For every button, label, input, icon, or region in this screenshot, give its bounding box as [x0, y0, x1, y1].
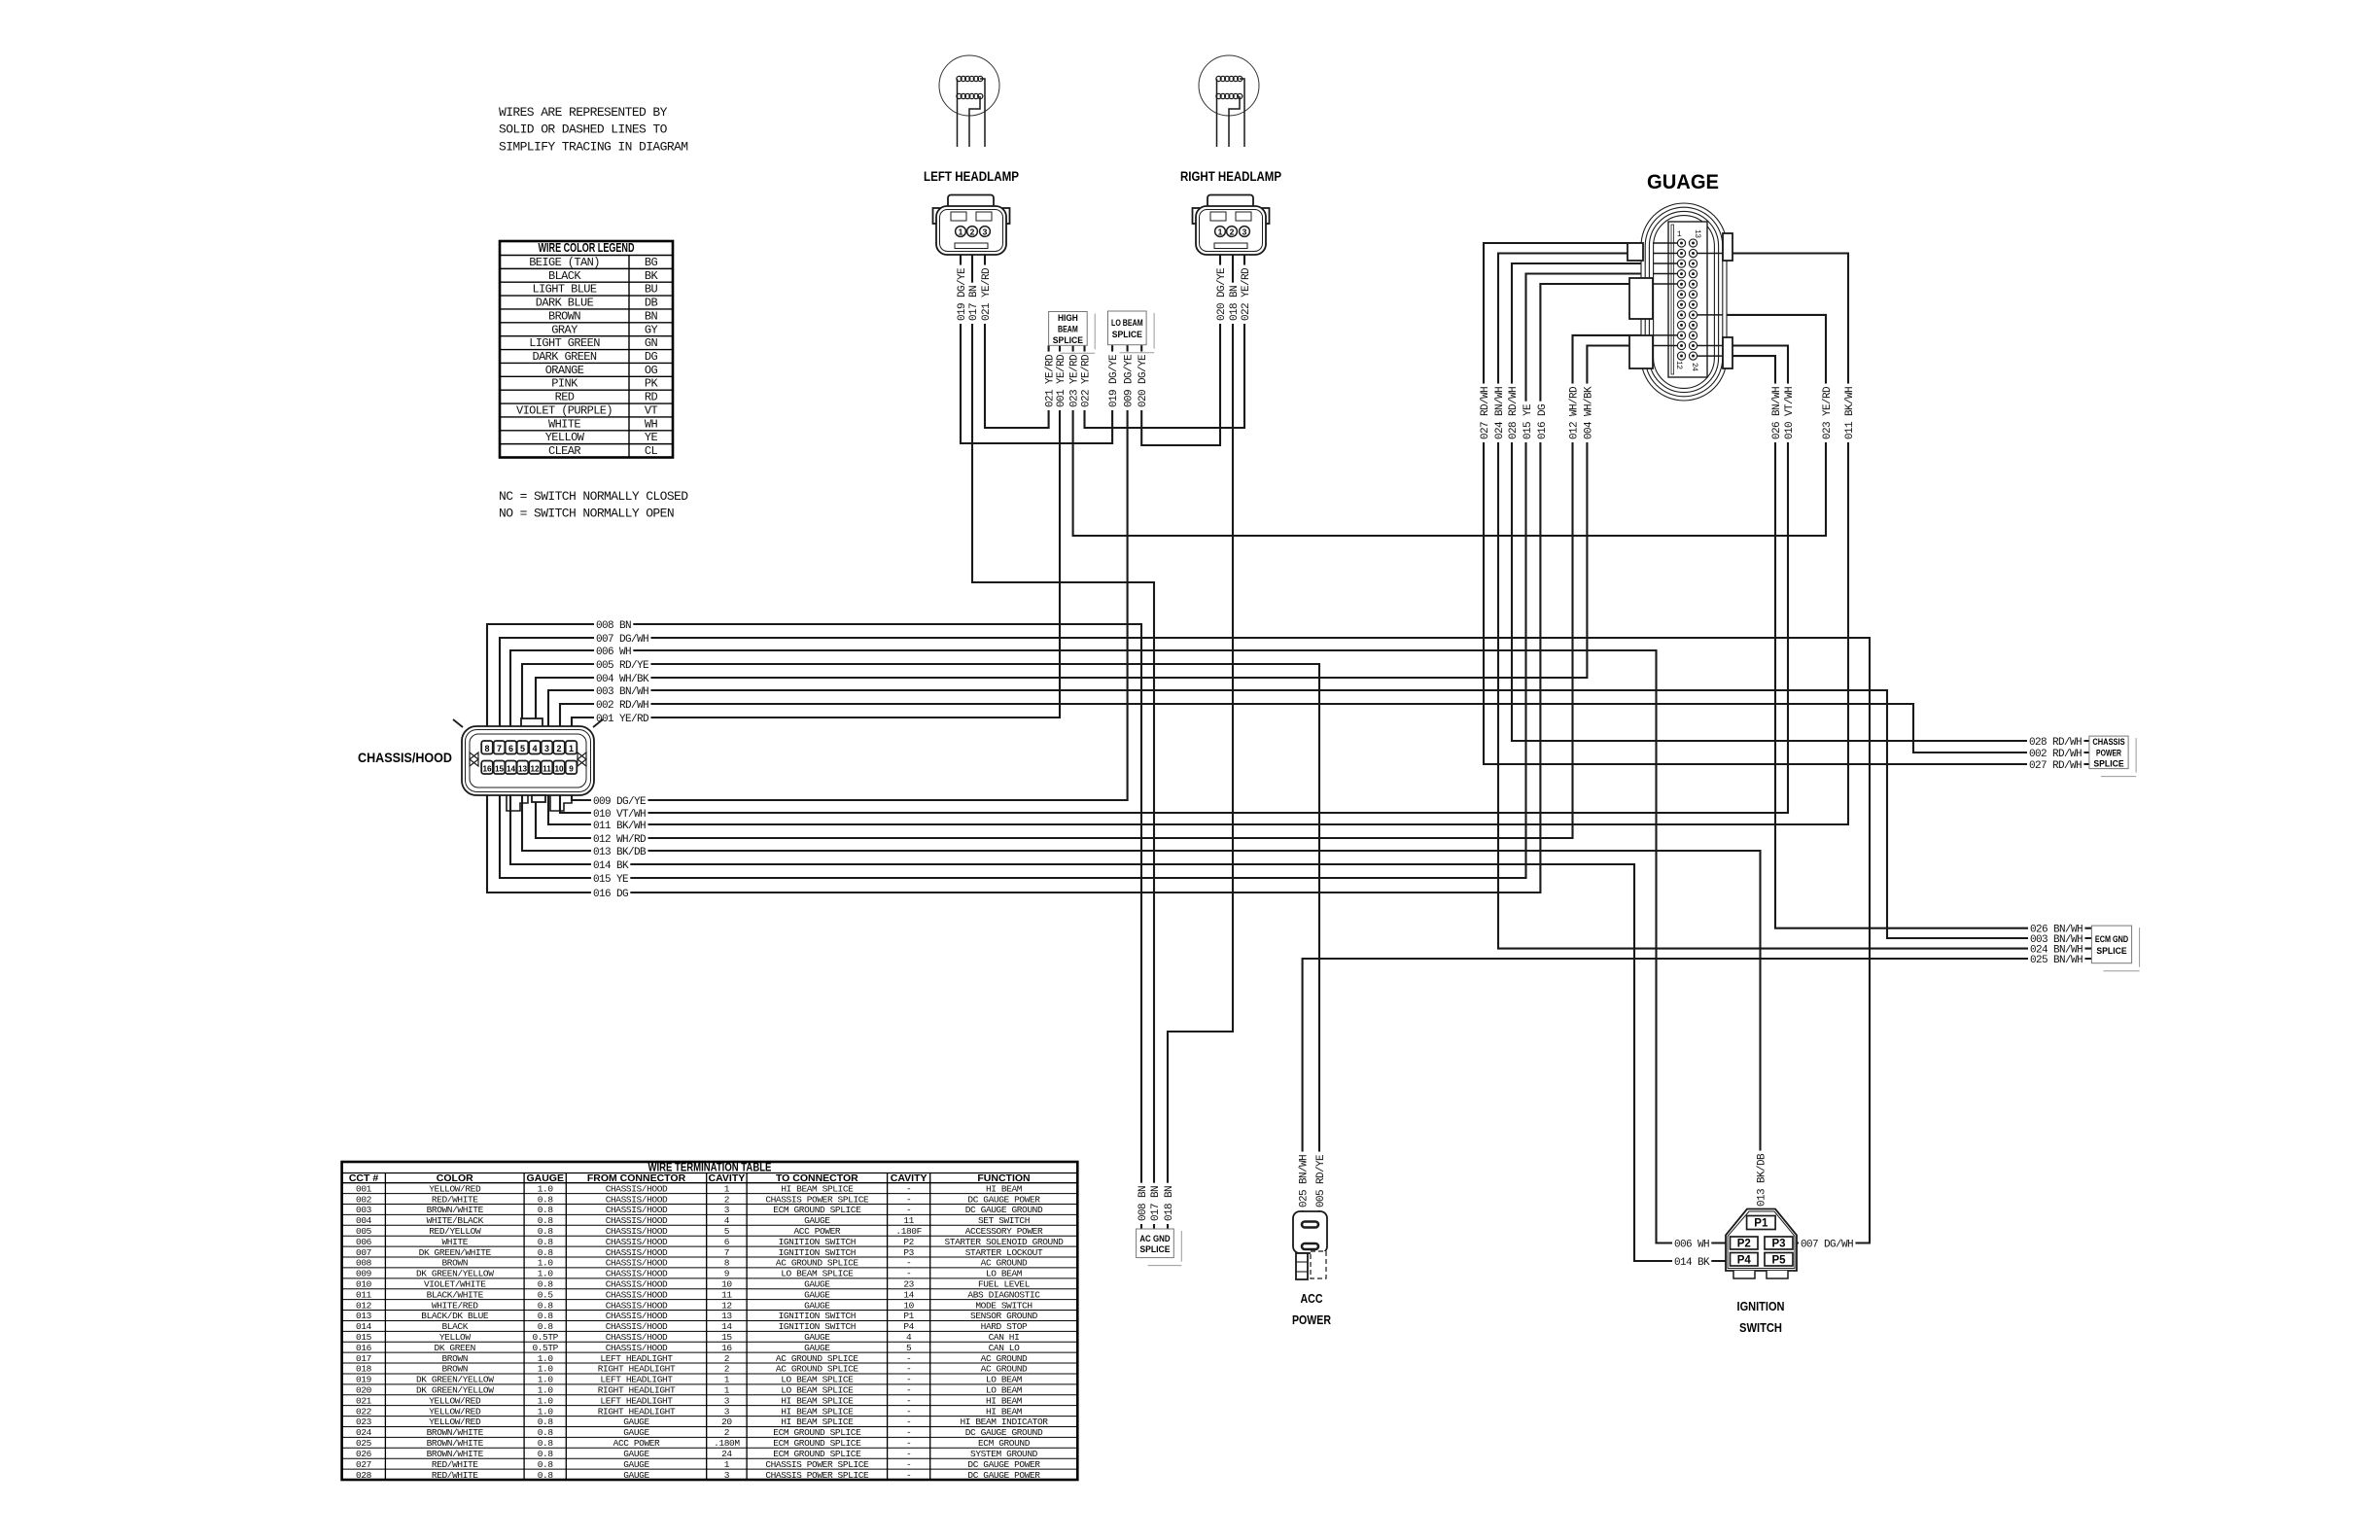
svg-text:SPLICE: SPLICE — [2096, 946, 2126, 957]
svg-text:23: 23 — [903, 1278, 914, 1289]
svg-text:GRAY: GRAY — [551, 323, 577, 336]
svg-text:0.8: 0.8 — [538, 1194, 554, 1205]
ignition pin P4 — [1731, 1253, 1759, 1267]
svg-text:12: 12 — [721, 1300, 732, 1311]
svg-text:-: - — [906, 1470, 911, 1481]
svg-text:ACC POWER: ACC POWER — [793, 1226, 840, 1237]
gauge pins — [1677, 239, 1685, 247]
svg-text:DK GREEN/YELLOW: DK GREEN/YELLOW — [416, 1269, 494, 1279]
svg-text:028: 028 — [356, 1470, 372, 1481]
svg-text:CHASSIS/HOOD: CHASSIS/HOOD — [606, 1258, 668, 1269]
svg-text:003: 003 — [356, 1205, 372, 1215]
svg-text:-: - — [906, 1459, 911, 1470]
svg-text:ACC POWER: ACC POWER — [613, 1438, 660, 1449]
svg-text:CHASSIS/HOOD: CHASSIS/HOOD — [606, 1343, 668, 1353]
label 003 BN/WH — [594, 684, 650, 696]
svg-text:GAUGE: GAUGE — [804, 1215, 830, 1226]
wire 011 BK/WH — [548, 254, 1848, 825]
svg-text:HI BEAM: HI BEAM — [986, 1395, 1023, 1406]
svg-text:0.8: 0.8 — [538, 1226, 554, 1237]
svg-text:LO BEAM SPLICE: LO BEAM SPLICE — [781, 1385, 854, 1396]
svg-text:STARTER LOCKOUT: STARTER LOCKOUT — [965, 1247, 1043, 1258]
svg-text:CHASSIS/HOOD: CHASSIS/HOOD — [606, 1289, 668, 1300]
svg-text:4: 4 — [532, 744, 537, 753]
svg-text:0.8: 0.8 — [538, 1205, 554, 1215]
svg-text:9: 9 — [724, 1269, 730, 1279]
svg-text:MODE SWITCH: MODE SWITCH — [975, 1300, 1032, 1311]
svg-text:0.5: 0.5 — [538, 1289, 554, 1300]
svg-text:LEFT HEADLIGHT: LEFT HEADLIGHT — [600, 1353, 673, 1364]
label 024 BN/WH — [2028, 943, 2084, 955]
svg-text:0.8: 0.8 — [538, 1449, 554, 1459]
svg-text:POWER: POWER — [1292, 1312, 1331, 1327]
svg-text:AC GROUND SPLICE: AC GROUND SPLICE — [776, 1353, 859, 1364]
svg-text:YELLOW/RED: YELLOW/RED — [429, 1395, 481, 1406]
svg-text:RED/WHITE: RED/WHITE — [432, 1470, 478, 1481]
ecm gnd splice — [2139, 927, 2141, 967]
ignition pin P5 — [1765, 1253, 1793, 1267]
label 021 YE/RD s — [1043, 352, 1055, 410]
wire 001 YE/RD — [572, 345, 1060, 736]
svg-text:008 BN: 008 BN — [1137, 1186, 1149, 1221]
svg-text:P3: P3 — [903, 1247, 914, 1258]
svg-text:YELLOW: YELLOW — [439, 1332, 472, 1343]
wire 018 BN — [1168, 255, 1233, 1229]
svg-text:WHITE/BLACK: WHITE/BLACK — [427, 1215, 484, 1226]
svg-text:LEFT HEADLIGHT: LEFT HEADLIGHT — [600, 1395, 673, 1406]
svg-text:-: - — [906, 1375, 911, 1385]
svg-text:019: 019 — [356, 1375, 372, 1385]
svg-text:013: 013 — [356, 1311, 372, 1321]
svg-text:1: 1 — [724, 1459, 730, 1470]
svg-text:GAUGE: GAUGE — [623, 1427, 649, 1438]
svg-text:DC GAUGE GROUND: DC GAUGE GROUND — [965, 1427, 1043, 1438]
svg-text:5: 5 — [724, 1226, 730, 1237]
svg-text:CLEAR: CLEAR — [548, 444, 580, 458]
svg-text:CHASSIS/HOOD: CHASSIS/HOOD — [606, 1215, 668, 1226]
svg-text:0.5TP: 0.5TP — [532, 1332, 558, 1343]
svg-text:025: 025 — [356, 1438, 372, 1449]
svg-text:P2: P2 — [1737, 1239, 1751, 1250]
svg-text:015: 015 — [356, 1332, 372, 1343]
svg-text:017 BN: 017 BN — [968, 286, 980, 321]
svg-text:010: 010 — [356, 1278, 372, 1289]
svg-text:021 YE/RD: 021 YE/RD — [981, 267, 993, 321]
svg-text:0.8: 0.8 — [538, 1300, 554, 1311]
svg-text:4: 4 — [724, 1215, 730, 1226]
svg-text:9: 9 — [569, 764, 574, 773]
svg-text:0.8: 0.8 — [538, 1311, 554, 1321]
svg-text:-: - — [906, 1258, 911, 1269]
svg-text:VT: VT — [645, 403, 658, 417]
wire 013 BK/DB — [522, 759, 1761, 1216]
svg-text:015 YE: 015 YE — [1522, 403, 1534, 439]
label 012 WH/RD v — [1567, 384, 1579, 442]
label 011 BK/WH v — [1842, 384, 1854, 442]
svg-text:GAUGE: GAUGE — [623, 1470, 649, 1481]
label 019 DG/YE v — [955, 265, 966, 324]
svg-text:0.8: 0.8 — [538, 1459, 554, 1470]
svg-text:CHASSIS/HOOD: CHASSIS/HOOD — [606, 1226, 668, 1237]
label 005 RD/YE — [594, 658, 650, 670]
svg-text:GAUGE: GAUGE — [804, 1289, 830, 1300]
svg-text:1: 1 — [724, 1183, 730, 1194]
svg-text:DB: DB — [645, 297, 658, 310]
label 011 BK/WH — [591, 819, 647, 830]
svg-text:024: 024 — [356, 1427, 372, 1438]
svg-text:008 BN: 008 BN — [596, 620, 631, 632]
svg-text:2: 2 — [724, 1194, 730, 1205]
wire 023 YE/RD — [1073, 315, 1826, 536]
label 015 YE v — [1521, 402, 1532, 442]
label 025 BN/WH — [2028, 953, 2084, 964]
svg-text:CHASSIS/HOOD: CHASSIS/HOOD — [606, 1321, 668, 1332]
svg-text:2: 2 — [724, 1427, 730, 1438]
svg-text:028 RD/WH: 028 RD/WH — [1508, 387, 1520, 439]
wire 004 WH/BK — [536, 346, 1674, 737]
wire 028 RD/WH — [1512, 263, 2089, 741]
svg-text:BROWN/WHITE: BROWN/WHITE — [427, 1449, 484, 1459]
svg-text:CAN LO: CAN LO — [989, 1343, 1021, 1353]
svg-text:022: 022 — [356, 1406, 372, 1417]
svg-text:3: 3 — [724, 1406, 730, 1417]
label 016 DG v — [1535, 402, 1547, 442]
label 014 BK — [591, 858, 630, 870]
svg-text:VIOLET/WHITE: VIOLET/WHITE — [424, 1278, 486, 1289]
svg-text:CL: CL — [645, 444, 658, 458]
ac gnd splice — [1180, 1231, 1182, 1262]
svg-text:GAUGE: GAUGE — [804, 1300, 830, 1311]
label 027 RD/WH — [2027, 758, 2083, 770]
svg-text:P3: P3 — [1771, 1239, 1785, 1250]
label 019 DG/YE s — [1106, 352, 1118, 410]
svg-text:BLACK/WHITE: BLACK/WHITE — [427, 1289, 484, 1300]
svg-text:1: 1 — [724, 1375, 730, 1385]
svg-text:P2: P2 — [903, 1237, 914, 1247]
svg-text:10: 10 — [721, 1278, 732, 1289]
ignition pin P1 — [1747, 1216, 1776, 1230]
wire 024 BN/WH — [1498, 254, 2091, 949]
label 003 BN/WH r — [2028, 932, 2084, 944]
svg-text:-: - — [906, 1417, 911, 1427]
svg-text:WH: WH — [645, 417, 658, 431]
svg-text:WHITE/RED: WHITE/RED — [432, 1300, 478, 1311]
svg-text:002 RD/WH: 002 RD/WH — [596, 700, 648, 712]
svg-text:009: 009 — [356, 1269, 372, 1279]
svg-text:RIGHT HEADLAMP: RIGHT HEADLAMP — [1180, 169, 1281, 184]
svg-text:LO BEAM: LO BEAM — [1111, 318, 1143, 329]
label 026 BN/WH v — [1769, 384, 1781, 442]
wire 025 BN/WH — [1303, 959, 2092, 1211]
high beam splice — [1094, 314, 1096, 350]
wire color legend table — [500, 241, 673, 458]
wire 005 RD/YE — [522, 664, 1319, 1211]
svg-text:GAUGE: GAUGE — [623, 1449, 649, 1459]
svg-text:007: 007 — [356, 1247, 371, 1258]
svg-text:BROWN/WHITE: BROWN/WHITE — [427, 1205, 484, 1215]
label 028 RD/WH v — [1506, 384, 1518, 442]
svg-text:-: - — [906, 1427, 911, 1438]
svg-text:0.8: 0.8 — [538, 1247, 554, 1258]
svg-text:GAUGE: GAUGE — [804, 1278, 830, 1289]
svg-text:3: 3 — [724, 1395, 730, 1406]
svg-text:BLACK/DK BLUE: BLACK/DK BLUE — [421, 1311, 489, 1321]
svg-text:BN: BN — [645, 309, 658, 323]
svg-text:1.0: 1.0 — [538, 1353, 554, 1364]
svg-text:13: 13 — [721, 1311, 732, 1321]
svg-text:ECM GND: ECM GND — [2095, 934, 2128, 945]
svg-text:005 RD/YE: 005 RD/YE — [596, 660, 649, 672]
svg-text:DARK GREEN: DARK GREEN — [532, 350, 596, 364]
svg-text:YELLOW: YELLOW — [545, 431, 585, 444]
label 017 BN v — [1148, 1183, 1160, 1224]
svg-text:-: - — [906, 1269, 911, 1279]
wire 020 DG/YE — [1141, 255, 1220, 445]
svg-text:3: 3 — [983, 227, 988, 236]
svg-text:RED: RED — [555, 391, 575, 404]
svg-text:0.8: 0.8 — [538, 1215, 554, 1226]
svg-text:CHASSIS/HOOD: CHASSIS/HOOD — [606, 1237, 668, 1247]
wire 010 VT/WH — [560, 346, 1788, 814]
svg-text:1.0: 1.0 — [538, 1385, 554, 1396]
svg-text:001 YE/RD: 001 YE/RD — [596, 714, 649, 725]
svg-text:11: 11 — [542, 764, 551, 773]
svg-text:HI BEAM INDICATOR: HI BEAM INDICATOR — [960, 1417, 1048, 1427]
svg-text:CHASSIS/HOOD: CHASSIS/HOOD — [606, 1183, 668, 1194]
svg-text:NC = SWITCH NORMALLY CLOSED: NC = SWITCH NORMALLY CLOSED — [499, 489, 688, 504]
svg-text:005 RD/YE: 005 RD/YE — [1315, 1154, 1327, 1207]
svg-text:VIOLET (PURPLE): VIOLET (PURPLE) — [516, 403, 612, 417]
svg-text:RIGHT HEADLIGHT: RIGHT HEADLIGHT — [598, 1364, 676, 1375]
svg-text:015 YE: 015 YE — [593, 874, 629, 886]
right headlamp bulb — [1199, 55, 1259, 116]
svg-text:.180F: .180F — [895, 1226, 922, 1237]
svg-text:HI BEAM SPLICE: HI BEAM SPLICE — [781, 1395, 854, 1406]
svg-text:012: 012 — [356, 1300, 372, 1311]
label 006 WH — [594, 645, 633, 656]
svg-text:012 WH/RD: 012 WH/RD — [593, 834, 647, 846]
svg-text:BROWN: BROWN — [441, 1258, 468, 1269]
svg-text:HI BEAM: HI BEAM — [986, 1406, 1023, 1417]
svg-text:CHASSIS POWER SPLICE: CHASSIS POWER SPLICE — [765, 1459, 869, 1470]
label 006 WH r — [1672, 1238, 1711, 1249]
svg-text:008: 008 — [356, 1258, 372, 1269]
svg-text:DC GAUGE POWER: DC GAUGE POWER — [967, 1194, 1040, 1205]
svg-text:8: 8 — [724, 1258, 730, 1269]
svg-text:LEFT HEADLAMP: LEFT HEADLAMP — [924, 169, 1019, 184]
svg-text:SWITCH: SWITCH — [1739, 1320, 1782, 1335]
svg-text:P5: P5 — [1771, 1254, 1786, 1266]
label 004 WH/BK — [594, 672, 650, 683]
svg-text:LO BEAM: LO BEAM — [986, 1385, 1023, 1396]
label 022 YE/RD s — [1079, 352, 1091, 410]
svg-text:7: 7 — [497, 744, 502, 753]
svg-text:YELLOW/RED: YELLOW/RED — [429, 1417, 481, 1427]
svg-text:006 WH: 006 WH — [596, 647, 631, 658]
svg-text:13: 13 — [518, 764, 528, 773]
label 015 YE — [591, 872, 630, 884]
svg-text:24: 24 — [721, 1449, 732, 1459]
label 028 RD/WH — [2027, 735, 2083, 747]
svg-text:RIGHT HEADLIGHT: RIGHT HEADLIGHT — [598, 1385, 676, 1396]
svg-text:-: - — [906, 1205, 911, 1215]
svg-text:6: 6 — [724, 1237, 730, 1247]
svg-text:1: 1 — [1218, 227, 1223, 236]
svg-text:BEIGE (TAN): BEIGE (TAN) — [529, 256, 600, 269]
label 024 BN/WH v — [1492, 384, 1504, 442]
svg-text:14: 14 — [507, 764, 516, 773]
svg-text:BROWN: BROWN — [441, 1353, 468, 1364]
svg-text:LO BEAM SPLICE: LO BEAM SPLICE — [781, 1375, 854, 1385]
svg-text:GAUGE: GAUGE — [623, 1417, 649, 1427]
svg-text:DG: DG — [645, 350, 658, 364]
svg-text:YELLOW/RED: YELLOW/RED — [429, 1406, 481, 1417]
wire 002 RD/WH — [560, 704, 2089, 752]
svg-text:CHASSIS/HOOD: CHASSIS/HOOD — [606, 1300, 668, 1311]
svg-text:026 BN/WH: 026 BN/WH — [1771, 387, 1783, 439]
svg-text:001 YE/RD: 001 YE/RD — [1056, 354, 1067, 407]
svg-text:SPLICE: SPLICE — [1139, 1244, 1170, 1255]
svg-text:13: 13 — [1693, 229, 1701, 238]
label 026 BN/WH — [2028, 923, 2084, 934]
svg-text:ECM GROUND SPLICE: ECM GROUND SPLICE — [773, 1427, 861, 1438]
svg-text:ABS DIAGNOSTIC: ABS DIAGNOSTIC — [967, 1289, 1040, 1300]
svg-text:IGNITION SWITCH: IGNITION SWITCH — [779, 1311, 857, 1321]
svg-text:BEAM: BEAM — [1058, 324, 1078, 334]
svg-text:CHASSIS/HOOD: CHASSIS/HOOD — [358, 751, 452, 765]
svg-text:026: 026 — [356, 1449, 372, 1459]
svg-text:2: 2 — [1230, 227, 1235, 236]
label 009 DG/YE — [591, 794, 647, 806]
svg-text:CHASSIS POWER SPLICE: CHASSIS POWER SPLICE — [765, 1470, 869, 1481]
svg-text:AC GND: AC GND — [1139, 1234, 1170, 1244]
label 007 DG/WH r — [1799, 1238, 1855, 1249]
svg-text:DC GAUGE POWER: DC GAUGE POWER — [967, 1470, 1040, 1481]
svg-text:-: - — [906, 1183, 911, 1194]
svg-text:YELLOW/RED: YELLOW/RED — [429, 1183, 481, 1194]
svg-text:006 WH: 006 WH — [1674, 1240, 1709, 1251]
svg-text:GAUGE: GAUGE — [804, 1332, 830, 1343]
svg-text:DARK BLUE: DARK BLUE — [536, 297, 594, 310]
label 022 YE/RD v — [1239, 265, 1250, 324]
svg-text:WIRES ARE REPRESENTED BY: WIRES ARE REPRESENTED BY — [499, 105, 668, 120]
svg-text:022 YE/RD: 022 YE/RD — [1241, 267, 1252, 321]
svg-text:1: 1 — [724, 1385, 730, 1396]
svg-text:001: 001 — [356, 1183, 372, 1194]
label 023 YE/RD s — [1067, 352, 1079, 410]
svg-text:1.0: 1.0 — [538, 1406, 554, 1417]
svg-text:-: - — [906, 1364, 911, 1375]
chassis/hood pins — [481, 741, 493, 754]
label 008 BN — [594, 618, 633, 630]
label 001 YE/RD s — [1054, 352, 1066, 410]
svg-text:LO BEAM: LO BEAM — [986, 1269, 1023, 1279]
svg-text:RED/WHITE: RED/WHITE — [432, 1194, 478, 1205]
svg-text:RIGHT HEADLIGHT: RIGHT HEADLIGHT — [598, 1406, 676, 1417]
svg-text:AC GROUND: AC GROUND — [981, 1353, 1028, 1364]
svg-text:009 DG/YE: 009 DG/YE — [593, 796, 647, 808]
lo beam splice — [1153, 313, 1155, 349]
chassis power splice — [2135, 738, 2137, 773]
svg-text:LIGHT BLUE: LIGHT BLUE — [532, 283, 596, 297]
svg-text:025 BN/WH: 025 BN/WH — [1299, 1155, 1311, 1207]
svg-text:ACC: ACC — [1301, 1291, 1323, 1306]
svg-text:-: - — [906, 1385, 911, 1396]
svg-text:0.8: 0.8 — [538, 1237, 554, 1247]
svg-text:GY: GY — [645, 323, 658, 336]
label 025 BN/WH v — [1297, 1152, 1309, 1210]
svg-text:GAUGE: GAUGE — [623, 1459, 649, 1470]
svg-text:ECM GROUND SPLICE: ECM GROUND SPLICE — [773, 1438, 861, 1449]
svg-text:021: 021 — [356, 1395, 372, 1406]
label 002 RD/WH — [594, 698, 650, 710]
svg-text:CHASSIS: CHASSIS — [2092, 737, 2124, 748]
svg-text:1.0: 1.0 — [538, 1375, 554, 1385]
svg-text:GAUGE: GAUGE — [804, 1343, 830, 1353]
wire 014 BK — [510, 759, 1731, 1261]
svg-text:14: 14 — [903, 1289, 914, 1300]
svg-text:IGNITION SWITCH: IGNITION SWITCH — [779, 1247, 857, 1258]
svg-text:3: 3 — [544, 744, 549, 753]
svg-text:CAN HI: CAN HI — [989, 1332, 1020, 1343]
svg-text:LO BEAM SPLICE: LO BEAM SPLICE — [781, 1269, 854, 1279]
svg-text:1.0: 1.0 — [538, 1395, 554, 1406]
svg-text:GN: GN — [645, 336, 658, 350]
svg-text:RED/YELLOW: RED/YELLOW — [429, 1226, 481, 1237]
ignition pin P3 — [1765, 1237, 1793, 1249]
svg-text:12: 12 — [530, 764, 540, 773]
svg-text:004: 004 — [356, 1215, 372, 1226]
label 017 BN v — [966, 283, 978, 324]
svg-text:.180M: .180M — [714, 1438, 740, 1449]
label 008 BN v — [1136, 1183, 1147, 1224]
svg-text:CHASSIS/HOOD: CHASSIS/HOOD — [606, 1247, 668, 1258]
svg-text:1.0: 1.0 — [538, 1364, 554, 1375]
ignition pin P2 — [1731, 1237, 1759, 1249]
svg-text:2: 2 — [970, 227, 975, 236]
svg-text:1: 1 — [959, 227, 963, 236]
wire 008 BN — [487, 624, 1141, 1229]
svg-text:004 WH/BK: 004 WH/BK — [596, 674, 649, 685]
svg-text:AC GROUND SPLICE: AC GROUND SPLICE — [776, 1258, 859, 1269]
svg-text:014: 014 — [356, 1321, 372, 1332]
svg-text:10: 10 — [903, 1300, 914, 1311]
svg-text:011 BK/WH: 011 BK/WH — [1844, 387, 1856, 439]
label 013 BK/DB — [591, 845, 647, 857]
label 021 YE/RD v — [979, 265, 991, 324]
svg-text:027 RD/WH: 027 RD/WH — [2029, 760, 2082, 772]
svg-text:CHASSIS/HOOD: CHASSIS/HOOD — [606, 1332, 668, 1343]
svg-text:017: 017 — [356, 1353, 371, 1364]
right headlamp connector — [1207, 195, 1253, 208]
wire 009 DG/YE — [572, 345, 1128, 800]
svg-text:RD: RD — [645, 391, 658, 404]
svg-text:006: 006 — [356, 1237, 372, 1247]
label 014 BK r — [1672, 1255, 1711, 1267]
svg-text:3: 3 — [724, 1205, 730, 1215]
wire 021 YE/RD — [985, 255, 1049, 428]
wire 019 DG/YE — [961, 255, 1112, 443]
svg-text:0.8: 0.8 — [538, 1438, 554, 1449]
svg-text:2: 2 — [724, 1353, 730, 1364]
label 004 WH/BK v — [1581, 384, 1592, 442]
svg-text:BROWN/WHITE: BROWN/WHITE — [427, 1438, 484, 1449]
svg-text:1.0: 1.0 — [538, 1269, 554, 1279]
svg-text:6: 6 — [508, 744, 513, 753]
svg-text:016 DG: 016 DG — [593, 889, 628, 900]
svg-text:WIRE COLOR LEGEND: WIRE COLOR LEGEND — [539, 240, 635, 255]
label 002 RD/WH r — [2027, 747, 2083, 758]
